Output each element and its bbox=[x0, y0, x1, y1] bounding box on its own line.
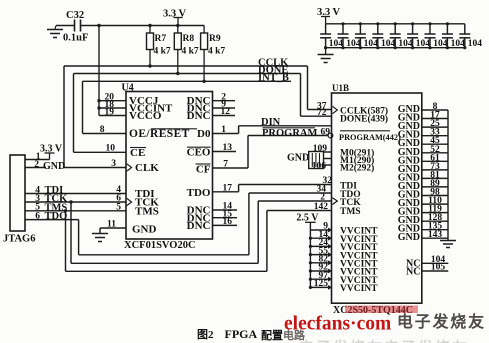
svg-text:INT_B: INT_B bbox=[258, 73, 289, 84]
pin 81 GND (U1B) bbox=[422, 177, 448, 179]
capacitor 104 #8 bbox=[446, 24, 448, 34]
ground (GND bus) bbox=[440, 240, 456, 242]
svg-text:FPGA: FPGA bbox=[225, 327, 258, 341]
capacitor 104 #5 bbox=[394, 24, 396, 34]
capacitor 104 #3 bbox=[359, 24, 361, 34]
svg-text:JTAG6: JTAG6 bbox=[3, 234, 35, 245]
pin 110 GND (U1B) bbox=[422, 203, 448, 205]
pin 104 NC bbox=[422, 262, 449, 264]
ground (U4 pin 11) bbox=[92, 233, 108, 235]
net INT_B wire (U4 OE/RESET) bbox=[83, 80, 292, 82]
ground (cap bank) bbox=[318, 54, 334, 56]
svg-text:TMS: TMS bbox=[340, 207, 361, 217]
pin 52 GND (U1B) bbox=[422, 152, 448, 154]
svg-text:GND: GND bbox=[398, 232, 420, 243]
svg-text:19: 19 bbox=[105, 107, 115, 117]
op-amp U4 chip body XCF01SVO20C bbox=[126, 92, 213, 240]
svg-text:TDO: TDO bbox=[187, 187, 211, 199]
net CCLK wire (U4 CLK to U1B pin37) bbox=[64, 65, 308, 67]
pin 92 VVCINT bbox=[310, 270, 328, 272]
svg-text:OE/RESET: OE/RESET bbox=[129, 128, 190, 140]
svg-text:PROGRAM(442): PROGRAM(442) bbox=[339, 133, 401, 142]
connector JTAG6 body bbox=[10, 155, 25, 231]
svg-text:M2(292): M2(292) bbox=[340, 163, 374, 174]
pin 82 VVCINT bbox=[310, 262, 328, 264]
svg-text:VVCINT: VVCINT bbox=[340, 284, 378, 294]
pin 2 DNC bbox=[213, 100, 236, 102]
pin 14 VVCINT bbox=[310, 237, 328, 239]
svg-text:GND: GND bbox=[132, 224, 157, 236]
svg-text:图2: 图2 bbox=[197, 328, 214, 341]
capacitor 104 #2 bbox=[342, 24, 344, 34]
pin 16 DNC bbox=[213, 224, 238, 226]
capacitor C32 bbox=[74, 20, 76, 32]
svg-text:104: 104 bbox=[381, 39, 396, 49]
pin 4 TDI (JTAG) wire to U4 bbox=[25, 193, 126, 195]
svg-text:DNC: DNC bbox=[187, 110, 211, 122]
svg-text:13: 13 bbox=[223, 143, 233, 153]
svg-text:125: 125 bbox=[314, 279, 329, 289]
svg-text:GND: GND bbox=[287, 152, 309, 163]
svg-text:R8: R8 bbox=[183, 34, 195, 44]
pin 135 GND (U1B) bbox=[422, 229, 448, 231]
net PROGRAM wire (U4 CF to U1B pin69) bbox=[213, 167, 249, 169]
node R9-INT_B junction bbox=[202, 80, 205, 83]
resistor R9 bbox=[201, 33, 208, 50]
pin 12 DNC bbox=[213, 115, 236, 117]
pin 109 M0 bbox=[324, 151, 332, 153]
wire cap bank top rail bbox=[326, 23, 465, 25]
wire cap bank ground drop bbox=[325, 48, 327, 54]
pin 2 GND (JTAG) bbox=[25, 167, 46, 169]
svg-text:4 k7: 4 k7 bbox=[182, 47, 199, 57]
capacitor 104 #9 (rail end) bbox=[464, 24, 466, 34]
svg-text:143: 143 bbox=[428, 230, 443, 240]
pin 61 GND (U1B) bbox=[422, 160, 448, 162]
svg-text:106: 106 bbox=[312, 161, 327, 171]
pin 97 VVCINT bbox=[310, 278, 328, 280]
pin 6 TDO (JTAG) bbox=[25, 219, 79, 221]
pin 55 VVCINT bbox=[310, 254, 328, 256]
svg-text:4 k7: 4 k7 bbox=[208, 47, 225, 57]
svg-text:0.1uF: 0.1uF bbox=[63, 33, 88, 44]
net TMS wire (to U1B TMS) bbox=[64, 209, 67, 212]
resistor R8 bbox=[174, 33, 181, 50]
pin 3 TCK (JTAG) wire to U4 bbox=[25, 201, 126, 203]
svg-text:104: 104 bbox=[364, 39, 379, 49]
svg-text:104: 104 bbox=[329, 39, 344, 49]
pin 15 DNC bbox=[213, 217, 238, 219]
svg-text:109: 109 bbox=[313, 144, 328, 154]
svg-text:R7: R7 bbox=[155, 34, 167, 44]
svg-text:3: 3 bbox=[111, 159, 116, 169]
svg-text:8: 8 bbox=[100, 125, 105, 135]
pin 9 DNC bbox=[213, 107, 236, 109]
node R7-CCLK junction bbox=[148, 64, 151, 67]
net TDO-TDI link (U4 TDO to U1B TDI) bbox=[213, 191, 239, 193]
pin 105 NC bbox=[422, 270, 449, 272]
svg-text:VCCO: VCCO bbox=[129, 110, 162, 122]
svg-text:104: 104 bbox=[433, 39, 448, 49]
net DIN wire (U4 D0 to U1B) bbox=[213, 133, 239, 135]
svg-text:104: 104 bbox=[468, 39, 483, 49]
pin 143 GND (U1B) bbox=[422, 237, 448, 239]
pin 9 VVCINT bbox=[310, 229, 328, 231]
svg-text:NC: NC bbox=[406, 266, 420, 277]
pin 45 GND (U1B) bbox=[422, 143, 448, 145]
svg-text:TMS: TMS bbox=[135, 205, 159, 217]
op-amp U1B chip body XC2S50 bbox=[332, 93, 422, 303]
svg-text:CLK: CLK bbox=[135, 162, 159, 174]
pin 128 GND (U1B) bbox=[422, 220, 448, 222]
pin 24 VVCINT bbox=[310, 245, 328, 247]
svg-text:4 k7: 4 k7 bbox=[154, 47, 171, 57]
pin 14 DNC bbox=[213, 209, 238, 211]
pin 119 GND (U1B) bbox=[422, 212, 448, 214]
net DONE wire (U4 CE to U1B pin72) bbox=[74, 73, 301, 75]
svg-text:16: 16 bbox=[223, 217, 233, 227]
wire GND bus (right) bbox=[447, 110, 449, 240]
svg-text:DNC: DNC bbox=[187, 220, 211, 232]
svg-text:6: 6 bbox=[35, 211, 40, 221]
svg-text:69: 69 bbox=[321, 127, 331, 137]
svg-text:D0: D0 bbox=[197, 128, 211, 140]
svg-text:104: 104 bbox=[346, 39, 361, 49]
svg-text:XCF01SVO20C: XCF01SVO20C bbox=[124, 240, 196, 251]
svg-text:12: 12 bbox=[221, 107, 231, 117]
svg-text:elecfans·com: elecfans·com bbox=[284, 314, 391, 335]
node R8-DONE junction bbox=[176, 72, 179, 75]
wire U4 VCC stubs from 3.3V bbox=[98, 26, 100, 116]
svg-text:电子发烧友: 电子发烧友 bbox=[397, 312, 486, 331]
svg-text:CEO: CEO bbox=[187, 147, 211, 159]
svg-text:105: 105 bbox=[431, 263, 446, 273]
pin 89 GND (U1B) bbox=[422, 186, 448, 188]
wire 2.5V bus bbox=[309, 222, 311, 287]
pin 17 GND (U1B) bbox=[422, 118, 448, 120]
svg-text:C32: C32 bbox=[66, 10, 84, 21]
pin 25 GND (U1B) bbox=[422, 126, 448, 128]
svg-text:U4: U4 bbox=[122, 83, 134, 94]
pin 1 (JTAG) bbox=[25, 159, 50, 161]
wire cap bank bottom rail bbox=[326, 47, 466, 49]
svg-text:142: 142 bbox=[314, 202, 329, 212]
node 3.3V feed junction bbox=[97, 24, 100, 27]
capacitor 104 #1 bbox=[325, 24, 327, 34]
pin 8 GND (U1B) bbox=[422, 109, 448, 111]
capacitor 104 #4 bbox=[377, 24, 379, 34]
svg-text:104: 104 bbox=[451, 39, 466, 49]
svg-text:104: 104 bbox=[416, 39, 431, 49]
svg-text:2: 2 bbox=[34, 160, 39, 170]
svg-text:配置: 配置 bbox=[261, 328, 283, 342]
pin 5 TMS (JTAG) wire to U4 bbox=[25, 210, 126, 212]
pin M1 bbox=[324, 158, 332, 160]
wire U4 GND stub bbox=[100, 227, 126, 229]
wire 3.3V rail top-left bbox=[56, 25, 75, 27]
svg-text:72: 72 bbox=[317, 108, 327, 118]
svg-text:DONE(439): DONE(439) bbox=[340, 114, 388, 125]
pin 73 GND (U1B) bbox=[422, 169, 448, 171]
svg-text:U1B: U1B bbox=[332, 83, 349, 93]
svg-text:DIN: DIN bbox=[261, 117, 281, 128]
pin 13 CEO bbox=[213, 151, 237, 153]
svg-text:CF: CF bbox=[196, 163, 211, 175]
ground (C32) bbox=[55, 26, 56, 30]
svg-text:R9: R9 bbox=[209, 34, 221, 44]
pin 33 GND (U1B) bbox=[422, 135, 448, 137]
capacitor 104 #7 bbox=[429, 24, 431, 34]
capacitor 104 #6 bbox=[412, 24, 414, 34]
svg-text:GND: GND bbox=[43, 161, 65, 172]
pin 125 VVCINT bbox=[310, 286, 328, 288]
net TCK wire (to U1B TCK) bbox=[69, 200, 72, 203]
svg-text:104: 104 bbox=[398, 39, 413, 49]
pin 98 GND (U1B) bbox=[422, 195, 448, 197]
svg-text:10: 10 bbox=[106, 144, 116, 154]
svg-text:TDO: TDO bbox=[45, 211, 68, 222]
svg-text:PROGRAM: PROGRAM bbox=[262, 128, 317, 139]
resistor R7 bbox=[147, 33, 154, 50]
pin 106 M2 bbox=[324, 164, 332, 166]
net TDO wire (JTAG pin6 to U1B TDO) bbox=[78, 220, 80, 255]
svg-text:2: 2 bbox=[320, 193, 325, 203]
watermark red overlay on chip label bbox=[345, 306, 418, 314]
svg-text:CE: CE bbox=[130, 147, 145, 159]
